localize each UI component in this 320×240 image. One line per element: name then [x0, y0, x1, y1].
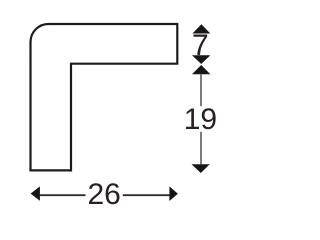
svg-text:19: 19: [184, 103, 217, 136]
dimension 26 right arrow: [169, 186, 178, 201]
svg-text:26: 26: [88, 178, 121, 211]
L-profile outline: [31, 24, 178, 170]
dimension 26 left line: [40, 194, 86, 196]
dimension 26 left arrow: [31, 186, 40, 200]
dimension 7 top arrow: [193, 24, 211, 33]
dimension 7 bottom arrow: [192, 55, 210, 64]
dimension 19 top arrow: [192, 65, 210, 74]
dimension 19 lower line: [200, 132, 202, 165]
dimension 19 bottom arrow: [192, 164, 210, 173]
dimension 19 upper line: [200, 74, 202, 106]
dimension 26 right line: [123, 194, 170, 196]
